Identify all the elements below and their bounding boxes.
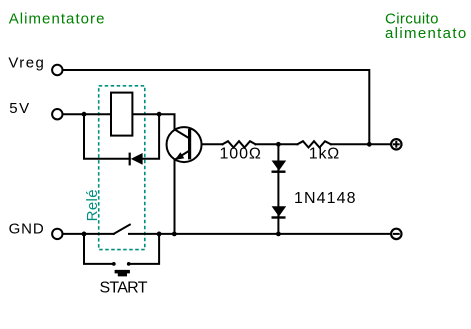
svg-text:START: START — [100, 280, 148, 297]
svg-text:1kΩ: 1kΩ — [309, 146, 340, 163]
svg-text:100Ω: 100Ω — [220, 146, 262, 163]
svg-text:5V: 5V — [9, 100, 30, 117]
svg-text:1N4148: 1N4148 — [294, 190, 357, 207]
svg-text:GND: GND — [9, 221, 45, 238]
svg-text:alimentato: alimentato — [385, 25, 468, 42]
svg-text:Alimentatore: Alimentatore — [9, 10, 106, 27]
svg-text:Relé: Relé — [84, 189, 101, 221]
svg-text:Vreg: Vreg — [8, 54, 45, 71]
